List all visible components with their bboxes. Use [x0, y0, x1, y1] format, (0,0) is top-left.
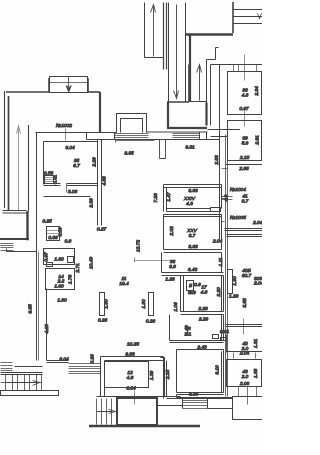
wall vertical x28 thick lower: [26, 211, 28, 240]
svg-text:60.7: 60.7: [242, 273, 252, 279]
right rooms outer top: [211, 64, 263, 66]
svg-text:2.04: 2.04: [253, 281, 262, 287]
svg-text:2.39: 2.39: [89, 198, 95, 209]
svg-text:0.89: 0.89: [58, 227, 64, 237]
svg-text:3.43: 3.43: [188, 267, 198, 273]
svg-text:№1005: №1005: [230, 215, 246, 221]
wall vertical x28: [28, 125, 30, 211]
room 43: [227, 360, 262, 388]
svg-text:1.28: 1.28: [229, 294, 239, 300]
top-right exit steps: [233, 10, 263, 24]
svg-text:5.55: 5.55: [242, 298, 248, 308]
svg-text:4.3: 4.3: [242, 93, 249, 99]
wall vertical x36 room11 left: [36, 133, 38, 361]
svg-text:3.35: 3.35: [124, 151, 134, 157]
wall below 41: [225, 229, 263, 231]
svg-text:1.90: 1.90: [232, 276, 238, 286]
svg-text:2.71: 2.71: [75, 263, 81, 274]
stair arrow right: [7, 381, 40, 386]
svg-text:4.88: 4.88: [102, 176, 108, 186]
svg-text:2.04: 2.04: [252, 220, 262, 226]
room 41 walls: [226, 164, 263, 166]
stair flight B left line: [168, 3, 170, 103]
svg-text:0.26: 0.26: [146, 319, 156, 325]
svg-text:6.7: 6.7: [73, 163, 80, 169]
top-right wall vertical: [232, 2, 234, 33]
landing box walls: [167, 103, 207, 129]
wall x210 vertical: [210, 65, 212, 126]
dim tick: [134, 391, 136, 405]
corridor wall right long: [226, 135, 228, 397]
svg-text:Б: Б: [189, 283, 192, 289]
exit box thick: [117, 397, 157, 425]
column 2 room11: [141, 293, 155, 325]
svg-text:1.76: 1.76: [68, 275, 74, 285]
svg-text:3.83: 3.83: [125, 352, 135, 358]
svg-text:4.8: 4.8: [201, 290, 208, 296]
room 36: [135, 253, 225, 276]
svg-text:0.88: 0.88: [48, 235, 58, 241]
svg-text:№1002: №1002: [56, 123, 72, 129]
svg-text:2.15: 2.15: [165, 370, 171, 381]
left window hatch: [1, 363, 13, 371]
column in big room: [228, 270, 233, 294]
wall top-left horizontal: [6, 91, 50, 93]
svg-text:0.61: 0.61: [220, 329, 230, 335]
wall stub below pier: [160, 140, 166, 159]
dim line vertical bottom: [243, 319, 245, 335]
svg-text:0.27: 0.27: [97, 227, 107, 233]
svg-text:0.9: 0.9: [65, 239, 72, 245]
wall x46 lower: [46, 289, 48, 361]
corridor bottom wall: [3, 211, 27, 214]
svg-text:4.6: 4.6: [127, 375, 134, 381]
stair bottom-left grid: [1, 375, 42, 391]
stair flight A left line: [144, 3, 146, 58]
room 14 box3: [46, 269, 75, 290]
svg-text:2.04: 2.04: [239, 351, 250, 357]
svg-text:3.04: 3.04: [65, 145, 75, 151]
stair flight B right line: [185, 3, 187, 103]
svg-text:3.36: 3.36: [189, 392, 199, 398]
top-right thick wall horizontal: [186, 33, 234, 35]
small closet box1: [47, 227, 72, 245]
svg-text:2.31: 2.31: [255, 135, 261, 146]
door tick corridor y168: [222, 168, 228, 170]
balcony box with down arrow: [49, 77, 89, 94]
svg-text:2.29: 2.29: [198, 317, 209, 323]
svg-text:10.25: 10.25: [127, 342, 139, 348]
svg-text:0.97: 0.97: [44, 252, 50, 262]
svg-text:2.34: 2.34: [254, 86, 260, 97]
room 39: [228, 111, 262, 162]
svg-text:1.60: 1.60: [54, 284, 64, 290]
porch bottom right: [233, 387, 263, 420]
top wall double: [101, 357, 164, 361]
svg-text:2.04: 2.04: [212, 239, 223, 245]
south band right part: [177, 395, 233, 398]
room XXV: [164, 215, 222, 253]
landing right top line: [188, 65, 190, 103]
svg-text:2.15: 2.15: [239, 155, 250, 161]
svg-text:2.29: 2.29: [92, 157, 98, 168]
svg-text:10.49: 10.49: [89, 257, 95, 269]
bay window inner: [121, 119, 143, 133]
big room bottom wall: [226, 325, 263, 327]
main north wall band top line: [36, 132, 117, 134]
band bottom line from x86: [87, 139, 208, 141]
svg-text:5х9: 5х9: [188, 290, 196, 296]
window hatch south: [183, 401, 208, 409]
window hatch left below: [1, 244, 14, 251]
svg-text:19.4: 19.4: [119, 281, 129, 287]
svg-text:2.0: 2.0: [241, 374, 249, 380]
svg-text:2.02: 2.02: [169, 226, 175, 237]
room 11 left inner line: [38, 252, 40, 361]
wall above big room: [227, 235, 263, 237]
room 38: [228, 55, 262, 115]
svg-text:2.20: 2.20: [216, 287, 222, 298]
wc room box2: [44, 249, 82, 274]
room 19: [177, 350, 224, 398]
inner wall left corridor: [8, 96, 10, 211]
room 35: [44, 140, 102, 226]
svg-text:2.85: 2.85: [238, 166, 249, 172]
right wall double: [164, 357, 167, 399]
svg-text:3.31: 3.31: [185, 145, 195, 151]
door ticks corridor right of XXIV: [222, 197, 228, 222]
svg-text:4.9: 4.9: [223, 194, 229, 201]
svg-text:3.10: 3.10: [215, 365, 221, 375]
outer wall left vertical: [4, 91, 6, 208]
svg-text:1.90: 1.90: [141, 299, 147, 309]
svg-text:1.60: 1.60: [54, 257, 64, 263]
notch wall right of corridor: [207, 48, 219, 60]
fraction bars of room labels: [0, 0, 1, 1]
entry arrow up: [197, 65, 202, 101]
room 12: [105, 362, 156, 392]
svg-text:1.38: 1.38: [253, 369, 259, 379]
svg-text:2.08: 2.08: [239, 381, 250, 387]
stair flight A arrow up: [151, 5, 156, 57]
south wall left segment: [47, 361, 69, 363]
tiny box between: [47, 263, 53, 267]
column 1 room11: [98, 293, 110, 324]
top-right exit arrow head: [258, 14, 262, 19]
wall vertical x100: [99, 92, 101, 132]
shaft left of room19: [161, 358, 165, 397]
svg-text:12.72: 12.72: [136, 240, 142, 252]
svg-text:2.28: 2.28: [197, 306, 208, 312]
stair middle wall double: [164, 3, 167, 70]
svg-text:3.33: 3.33: [188, 188, 198, 194]
wall ledge left: [1, 367, 43, 375]
band right end cap: [200, 130, 241, 140]
ground line thick: [89, 425, 200, 428]
svg-text:1.90: 1.90: [104, 299, 110, 309]
wall right of balcony: [88, 91, 100, 93]
svg-text:7.83: 7.83: [153, 193, 159, 203]
small stair bottom: [97, 399, 112, 425]
band left cap tick: [86, 133, 88, 140]
svg-text:6.65: 6.65: [28, 304, 34, 314]
stair flight A bottom rail: [145, 57, 164, 59]
svg-text:6.7: 6.7: [189, 233, 196, 239]
svg-text:1.11: 1.11: [218, 257, 224, 266]
wall below room35 second: [44, 196, 91, 198]
svg-text:2.2: 2.2: [57, 279, 65, 285]
outer wall right of stairs thick: [189, 35, 191, 103]
ramp arrow up left corridor: [17, 126, 21, 210]
room10 top wall: [116, 141, 155, 143]
svg-text:1.39: 1.39: [149, 371, 155, 381]
stair flight B arrow down: [174, 5, 179, 99]
band top line right part: [147, 131, 208, 133]
outer wall double left: [101, 357, 105, 397]
bay window outer: [117, 114, 147, 133]
room XXIV: [153, 185, 222, 212]
leader №1002: [65, 129, 67, 141]
room 17: [181, 276, 224, 315]
closet hatched room35: [44, 171, 59, 185]
ledge top of room 11: [7, 249, 37, 252]
svg-text:1.23: 1.23: [165, 277, 175, 283]
svg-text:8.7: 8.7: [242, 199, 249, 205]
landing box top: [167, 101, 189, 103]
svg-text:1.49: 1.49: [184, 325, 190, 335]
room 18: [170, 315, 230, 343]
landing bar: [1, 391, 59, 396]
south band bottom structure: [97, 397, 181, 399]
svg-text:2.53: 2.53: [214, 155, 220, 166]
svg-text:V: V: [66, 86, 71, 93]
svg-text:0.97: 0.97: [239, 106, 249, 112]
small stair arrow: [99, 410, 116, 414]
svg-text:0.26: 0.26: [90, 354, 96, 364]
svg-text:3.8: 3.8: [169, 264, 176, 270]
svg-text:1.47: 1.47: [166, 192, 172, 202]
svg-text:0.25: 0.25: [42, 219, 52, 225]
window hatch 3.04: [69, 364, 101, 374]
svg-text:№1004: №1004: [230, 187, 246, 193]
door ticks room41: [222, 197, 233, 200]
svg-text:5.9: 5.9: [242, 141, 249, 147]
wall corner bottom left room: [0, 238, 29, 240]
svg-text:3.08: 3.08: [68, 189, 78, 195]
svg-text:1.31: 1.31: [253, 339, 259, 349]
corridor wall left long: [219, 65, 221, 241]
entry corridor bottom: [191, 101, 207, 103]
svg-text:1.80: 1.80: [57, 298, 67, 304]
svg-text:1.06: 1.06: [173, 302, 179, 312]
svg-text:0.41: 0.41: [53, 175, 59, 185]
svg-text:3.33: 3.33: [188, 244, 198, 250]
svg-text:3.04: 3.04: [59, 357, 69, 363]
window hatch under bay: [115, 134, 149, 138]
svg-text:4.3: 4.3: [186, 201, 193, 207]
svg-text:0.6: 0.6: [194, 282, 201, 288]
svg-text:0.26: 0.26: [98, 318, 108, 324]
room 42: [227, 335, 263, 359]
window hatch right of pier: [173, 134, 200, 138]
wall x207 vertical: [206, 60, 208, 126]
wall right of exit box: [157, 405, 177, 407]
